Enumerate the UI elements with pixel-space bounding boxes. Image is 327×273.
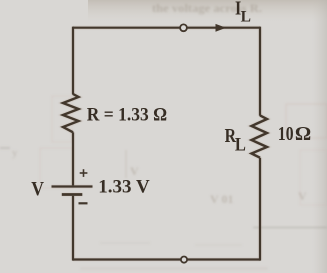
svg-text:1.33 V: 1.33 V xyxy=(98,177,150,198)
svg-text:V: V xyxy=(31,178,44,201)
svg-text:y: y xyxy=(12,147,18,159)
svg-text:R = 1.33 Ω: R = 1.33 Ω xyxy=(87,104,167,125)
svg-text:Ω: Ω xyxy=(295,123,311,145)
svg-text:V 01: V 01 xyxy=(210,192,233,206)
svg-text:L: L xyxy=(241,9,251,26)
svg-text:L: L xyxy=(235,133,246,154)
svg-text:10: 10 xyxy=(278,122,294,144)
svg-text:V: V xyxy=(298,189,307,203)
